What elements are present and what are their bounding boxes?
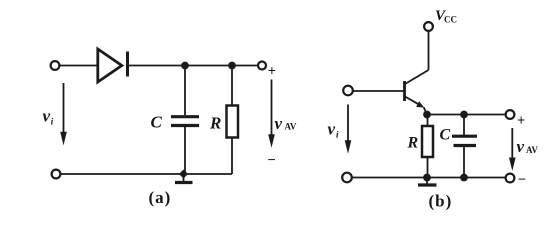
wire: input to diode anode — [60, 65, 98, 67]
ground (b) — [418, 178, 437, 186]
terminal: output - (b) — [506, 174, 515, 183]
svg-text:−: − — [268, 153, 276, 169]
node: junction bottom R (b) — [423, 174, 431, 182]
resistor R (a) — [227, 106, 239, 138]
terminal: input bottom (b) — [342, 173, 352, 183]
svg-text:(b): (b) — [429, 192, 453, 211]
wire: bottom rail (b) — [352, 177, 506, 179]
wire: collector diagonal (b) — [405, 70, 429, 84]
terminal: input top (b) — [343, 86, 353, 96]
diode D (a) — [98, 49, 128, 82]
arrow: v_AV (b) — [509, 128, 516, 171]
svg-text:R: R — [407, 135, 419, 152]
wire: bottom rail (a) — [61, 173, 233, 175]
wire: R branch top (b) — [427, 115, 429, 127]
node: emitter junction (b) — [423, 111, 431, 119]
wire: C branch bottom (b) — [463, 147, 465, 178]
svg-text:C: C — [151, 113, 163, 132]
resistor R (b) — [422, 126, 433, 157]
terminal: input bottom (a) — [52, 170, 61, 179]
svg-text:AV: AV — [285, 122, 297, 132]
transistor Q (b) — [405, 81, 428, 115]
wire: C branch top (b) — [463, 115, 465, 136]
terminal: output + (a) — [258, 62, 266, 70]
wire: R branch top (a) — [231, 66, 233, 106]
svg-text:−: − — [518, 172, 526, 188]
wire: diode cathode to output terminal — [129, 65, 258, 67]
svg-text:v: v — [517, 137, 525, 156]
arrow: v_i (b) — [345, 105, 352, 154]
node: junction top of C (b) — [460, 111, 468, 119]
capacitor C (b) — [452, 136, 477, 145]
svg-text:R: R — [209, 114, 221, 133]
svg-text:i: i — [51, 117, 54, 127]
svg-text:(a): (a) — [149, 188, 172, 207]
terminal: output + (b) — [506, 110, 515, 119]
terminal: Vcc (b) — [424, 22, 433, 31]
svg-text:+: + — [517, 113, 525, 129]
wire: collector vertical (b) — [428, 31, 430, 70]
svg-text:v: v — [43, 107, 51, 126]
wire: R branch bottom (a) — [231, 138, 233, 175]
svg-text:C: C — [440, 127, 451, 144]
wire: C branch bottom (a) — [184, 127, 186, 174]
node: junction top of R (a) — [228, 62, 236, 70]
svg-text:CC: CC — [444, 15, 457, 25]
svg-text:i: i — [336, 130, 339, 140]
wire: R branch bottom (b) — [427, 157, 429, 178]
svg-text:v: v — [275, 114, 283, 133]
capacitor C (a) — [171, 117, 199, 126]
arrow: v_i (a) — [60, 83, 67, 146]
terminal: input top (a) — [51, 61, 60, 70]
arrow: v_AV (a) — [268, 80, 275, 148]
svg-text:v: v — [328, 120, 336, 139]
wire: base (b) — [353, 90, 404, 92]
node: junction top of C (a) — [181, 62, 189, 70]
svg-text:AV: AV — [526, 145, 538, 155]
wire: C branch top (a) — [184, 66, 186, 116]
ground (a) — [175, 170, 193, 183]
svg-text:+: + — [268, 64, 276, 80]
wire: emitter rail (b) — [427, 114, 506, 116]
node: junction bottom C (b) — [460, 174, 468, 182]
